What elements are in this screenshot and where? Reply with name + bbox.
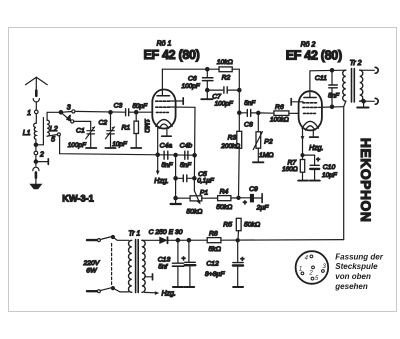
rectifier C250E30: [142, 229, 207, 244]
svg-text:Steckspule: Steckspule: [335, 262, 378, 271]
svg-text:50kΩ: 50kΩ: [186, 209, 202, 216]
svg-text:P2: P2: [264, 139, 273, 146]
ground (earth): [30, 184, 41, 189]
svg-text:C10: C10: [323, 164, 336, 171]
wire contact5 down and right (cathode rail): [60, 136, 195, 155]
shield terminal tube1: [170, 98, 184, 104]
svg-text:10kΩ: 10kΩ: [217, 59, 233, 66]
contact 4: [61, 112, 74, 123]
svg-text:Rö 1: Rö 1: [157, 41, 172, 48]
svg-text:Tr 2: Tr 2: [350, 60, 362, 67]
wire g2 tube2 to anode rail: [318, 106, 344, 109]
power switch top: [100, 236, 129, 241]
mains terminal top: [87, 239, 100, 242]
svg-text:L2: L2: [50, 126, 58, 133]
heater arrow Hzg tube1: [154, 155, 168, 185]
svg-text:R2: R2: [222, 75, 231, 82]
cathode lead tube2 with heater arrow: [301, 128, 305, 155]
potentiometer P2: [253, 111, 274, 162]
svg-text:5nF: 5nF: [161, 162, 173, 169]
svg-text:3: 3: [67, 105, 71, 112]
transformer Tr1: [128, 230, 145, 292]
svg-text:C11: C11: [315, 75, 327, 82]
svg-text:P1: P1: [200, 190, 209, 197]
svg-text:5kΩ: 5kΩ: [209, 246, 221, 253]
svg-text:+: +: [182, 255, 186, 262]
wire anode feed vertical: [343, 107, 345, 240]
cathode lead tube1: [157, 126, 159, 155]
svg-text:C1: C1: [76, 127, 85, 134]
wire C3 to tube grid: [129, 111, 153, 113]
svg-text:2: 2: [39, 151, 44, 158]
wire B+ vertical: [238, 69, 240, 131]
node: [135, 111, 138, 114]
resistor R4: [202, 188, 239, 211]
resistor R6: [258, 104, 298, 124]
ground plug: [33, 167, 39, 184]
wire: [35, 114, 37, 124]
wire contact4 to C1: [74, 121, 91, 129]
svg-text:R6: R6: [275, 104, 284, 111]
svg-text:Hzg.: Hzg.: [309, 145, 323, 152]
svg-text:C12: C12: [206, 261, 219, 268]
resistor R8: [207, 230, 344, 253]
resistor R2: [217, 59, 240, 82]
svg-text:0,1µF: 0,1µF: [197, 178, 215, 185]
capacitor C7: [206, 87, 240, 108]
node: [206, 68, 209, 71]
capacitor C6: [182, 69, 213, 99]
svg-text:C 250 E 30: C 250 E 30: [149, 229, 183, 236]
svg-text:EF 42 (80): EF 42 (80): [286, 49, 342, 63]
svg-text:5nf: 5nf: [158, 264, 168, 271]
svg-text:100pF: 100pF: [68, 142, 87, 149]
svg-text:1: 1: [27, 110, 31, 117]
svg-text:50kΩ: 50kΩ: [216, 204, 232, 211]
svg-text:R3: R3: [228, 134, 237, 141]
svg-text:HEKOPHON: HEKOPHON: [358, 138, 373, 223]
svg-text:R4: R4: [220, 188, 229, 195]
tube Rö1 EF42: [152, 69, 175, 128]
ground (Tr2 secondary): [357, 100, 368, 108]
svg-text:von oben: von oben: [335, 272, 371, 281]
capacitor C8: [238, 100, 259, 129]
switch link (dashed): [111, 244, 113, 285]
svg-text:5nF: 5nF: [328, 93, 340, 100]
node junction below L1: [34, 143, 37, 146]
svg-text:C4a: C4a: [160, 142, 173, 149]
svg-text:+: +: [316, 156, 320, 163]
svg-text:100pF: 100pF: [215, 101, 234, 108]
svg-text:C6: C6: [188, 76, 197, 83]
svg-text:2: 2: [308, 270, 313, 276]
svg-text:220V: 220V: [82, 260, 100, 267]
capacitor C3: [114, 102, 149, 116]
svg-text:4: 4: [67, 115, 71, 122]
coil core line: [36, 118, 44, 145]
capacitor C12 section b: [233, 239, 245, 287]
potentiometer P1: [174, 178, 208, 215]
svg-text:C7: C7: [212, 93, 221, 100]
svg-text:C13: C13: [158, 256, 171, 263]
tube Rö2 EF42: [299, 70, 346, 130]
capacitor C10: [303, 155, 338, 181]
svg-text:C9: C9: [249, 186, 258, 193]
headphone jack 1: [360, 67, 378, 73]
antenna: [26, 77, 48, 90]
ground (P1 wire): [171, 198, 181, 204]
resistor R5: [223, 218, 260, 240]
capacitor C9: [237, 186, 269, 212]
node 2: [34, 146, 44, 158]
resistor R1: [121, 112, 150, 148]
svg-text:C8: C8: [244, 122, 253, 129]
svg-text:EF 42 (80): EF 42 (80): [143, 48, 199, 62]
svg-text:10pF: 10pF: [112, 141, 128, 148]
coil socket diagram: [296, 251, 329, 284]
ground (tube1 base): [162, 128, 172, 136]
svg-text:100kΩ: 100kΩ: [270, 117, 289, 124]
capacitor C13: [158, 239, 184, 288]
svg-text:8+8µF: 8+8µF: [205, 271, 225, 278]
coil L2: [47, 120, 58, 136]
resistor R7: [282, 154, 308, 181]
wire contact3 to C3: [75, 110, 125, 113]
node 1: [27, 110, 38, 117]
coil L1: [23, 123, 36, 139]
svg-text:Hzg.: Hzg.: [154, 178, 168, 185]
svg-text:200kΩ: 200kΩ: [220, 143, 240, 150]
svg-text:2µF: 2µF: [256, 204, 270, 211]
heater tap Tr1: [145, 274, 153, 280]
svg-text:5nF: 5nF: [180, 162, 192, 169]
svg-text:10µF: 10µF: [322, 172, 338, 179]
contact 3: [61, 105, 75, 113]
resistor R3: [220, 131, 241, 197]
svg-text:C4b: C4b: [180, 142, 193, 149]
capacitor C12 section a: [182, 239, 196, 288]
svg-text:R5: R5: [223, 222, 232, 229]
svg-text:R8: R8: [209, 230, 218, 237]
capacitor C5: [176, 171, 215, 185]
svg-text:+: +: [243, 200, 247, 207]
svg-text:C3: C3: [114, 102, 123, 109]
svg-text:160Ω: 160Ω: [282, 166, 298, 173]
mains terminal bottom: [87, 290, 100, 293]
ground (tube2 base): [310, 130, 319, 137]
label Fassung der Steckspule von oben gesehen: [334, 253, 383, 291]
power switch bottom: [100, 287, 129, 292]
svg-text:100pF: 100pF: [182, 83, 201, 90]
svg-text:1MΩ: 1MΩ: [259, 152, 274, 159]
capacitor C2 (trimmer): [98, 111, 127, 148]
svg-text:5nF: 5nF: [244, 100, 256, 107]
svg-text:gesehen: gesehen: [334, 282, 368, 291]
svg-text:C2: C2: [98, 120, 107, 127]
svg-text:1: 1: [299, 266, 302, 272]
wire g2 tube1 to corner: [170, 107, 195, 178]
capacitor C1 (trimmer): [68, 127, 97, 149]
svg-text:6W: 6W: [86, 268, 97, 275]
shield terminal tube2: [291, 99, 303, 105]
wire C4 junction down: [175, 155, 177, 198]
capacitor C11: [315, 69, 340, 109]
svg-text:5: 5: [51, 137, 55, 144]
headphone jack 2: [360, 98, 378, 104]
wire anode rail tube1: [162, 68, 219, 70]
svg-text:50kΩ: 50kΩ: [244, 222, 260, 229]
svg-text:Tr 1: Tr 1: [128, 230, 140, 237]
wire: [35, 139, 37, 144]
chassis tap at node 2: [34, 155, 48, 166]
svg-text:KW-3-1: KW-3-1: [62, 194, 93, 204]
heater arrow Hzg Tr1: [145, 291, 176, 298]
contact 5: [47, 133, 60, 144]
antenna plug: [33, 91, 39, 111]
node junction: [59, 111, 62, 114]
capacitor C4b: [174, 142, 196, 169]
svg-text:Hzg.: Hzg.: [161, 291, 175, 298]
svg-text:L1: L1: [23, 130, 31, 137]
svg-text:50pF: 50pF: [133, 103, 149, 110]
transformer Tr2: [343, 60, 363, 107]
svg-text:Rö 2: Rö 2: [301, 42, 316, 49]
wire L2 top to junction: [47, 112, 61, 120]
capacitor C4a: [156, 142, 174, 169]
svg-text:1MΩ: 1MΩ: [143, 119, 150, 133]
svg-text:R1: R1: [121, 124, 130, 131]
svg-text:Fassung der: Fassung der: [335, 253, 383, 262]
